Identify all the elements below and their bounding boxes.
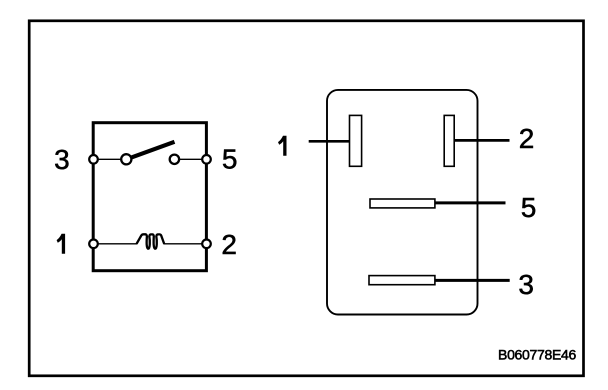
terminal 3	[89, 155, 98, 164]
leader wire pin 3	[435, 279, 510, 282]
switch arm	[131, 142, 175, 158]
svg-text:5: 5	[222, 144, 238, 175]
svg-text:5: 5	[521, 192, 537, 223]
wire coil to terminal2	[164, 243, 204, 245]
pin 3 slot	[369, 276, 435, 285]
wire switch contact to terminal5	[178, 158, 203, 160]
pin label 1	[278, 136, 287, 156]
leader wire pin 1	[309, 140, 350, 143]
leader wire pin 2	[455, 139, 510, 142]
svg-text:B060778E46: B060778E46	[498, 346, 576, 362]
pin 2 slot	[444, 115, 454, 166]
leader wire pin 5	[435, 201, 506, 204]
svg-text:2: 2	[519, 123, 535, 154]
terminal 2	[202, 240, 211, 249]
wire terminal3 to switch pivot	[97, 158, 122, 160]
switch fixed contact	[170, 155, 179, 164]
svg-text:2: 2	[221, 229, 237, 260]
relay box outline	[93, 123, 206, 271]
pin 5 slot	[370, 199, 435, 208]
svg-text:3: 3	[518, 269, 534, 300]
wire terminal1 to coil	[97, 243, 137, 245]
relay coil	[137, 234, 165, 248]
label 1 (schematic)	[57, 234, 66, 254]
switch pivot contact	[121, 154, 131, 164]
connector body	[327, 90, 478, 315]
svg-text:3: 3	[54, 144, 70, 175]
pin 1 slot	[350, 115, 362, 166]
terminal 1	[89, 240, 98, 249]
terminal 5	[202, 155, 211, 164]
